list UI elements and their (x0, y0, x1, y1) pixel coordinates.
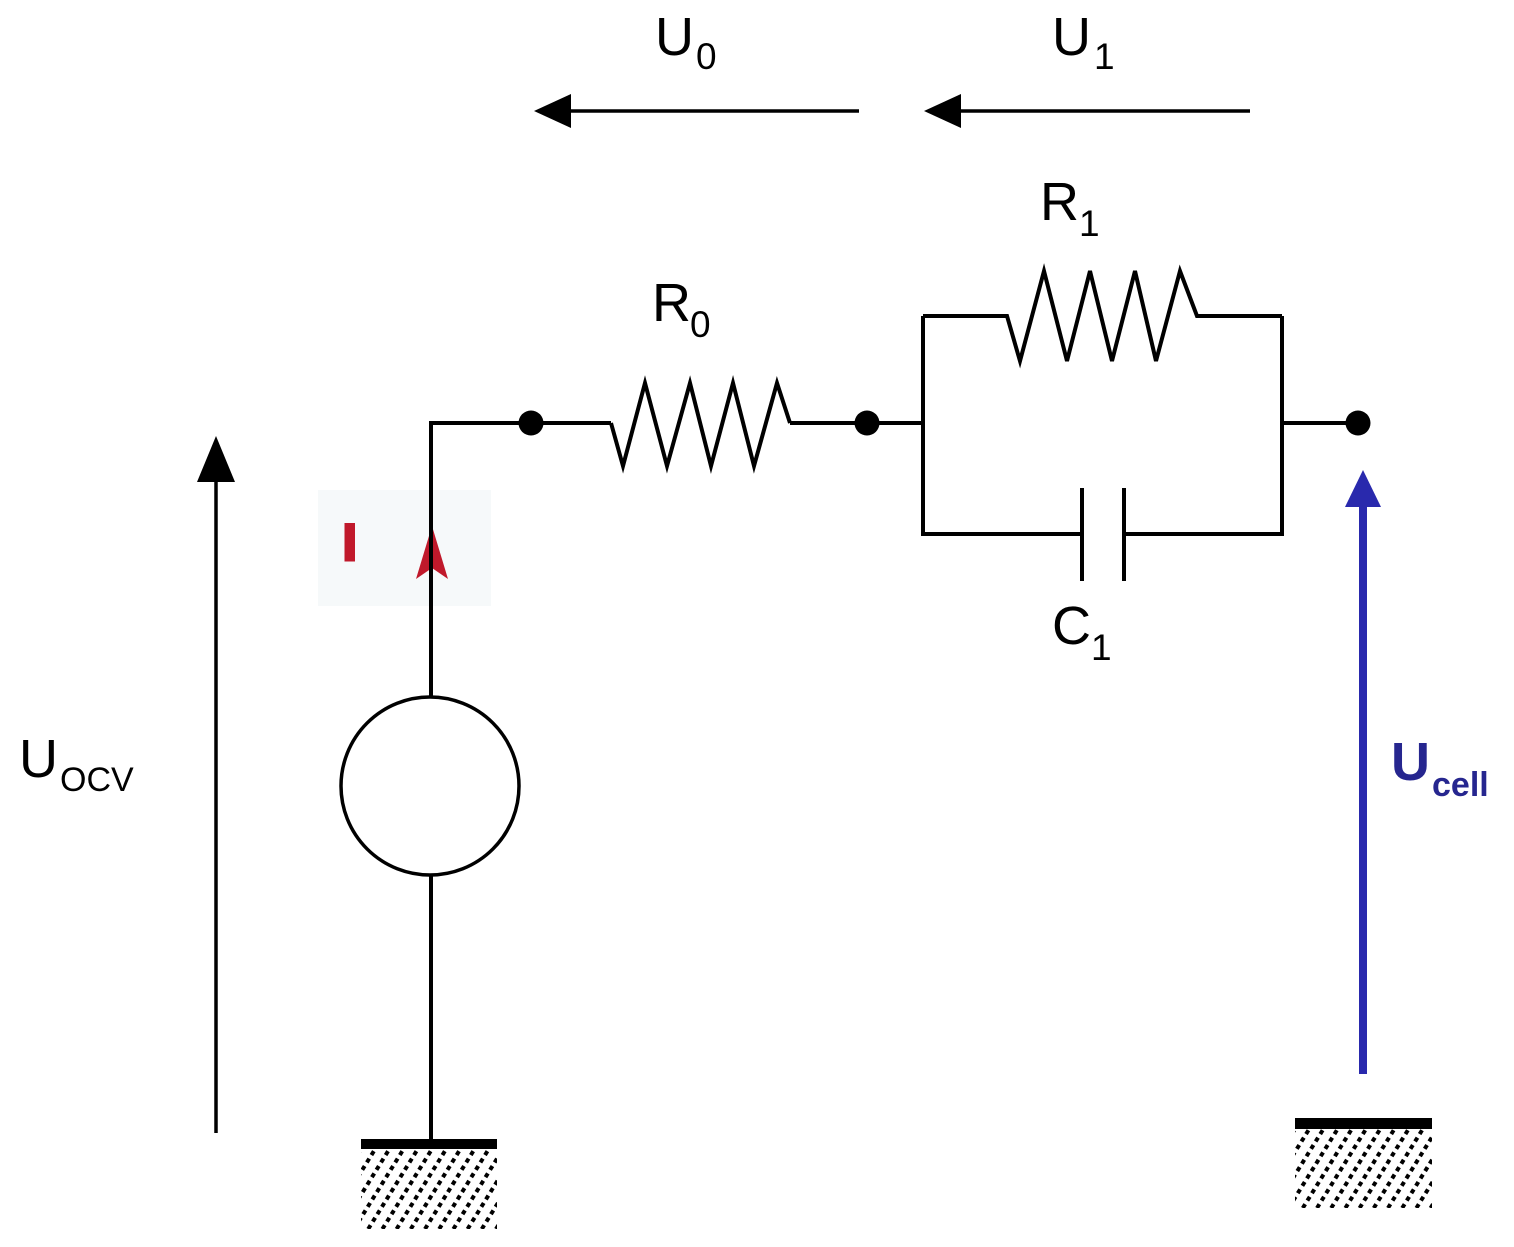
arrow U_cell (blue, right) (1359, 503, 1367, 1074)
node C (output junction dot) (1346, 411, 1371, 436)
current label I (red) (345, 523, 356, 562)
arrow U1 (top right) (956, 109, 1250, 113)
svg-text:C: C (1052, 596, 1091, 656)
svg-text:U: U (19, 729, 58, 789)
ground left: bar (361, 1139, 497, 1149)
wire: R0 to RC box (790, 421, 923, 425)
svg-text:U: U (655, 7, 694, 67)
node B (junction dot middle) (855, 411, 880, 436)
svg-text:0: 0 (696, 36, 717, 77)
svg-text:1: 1 (1094, 36, 1115, 77)
wire: source top up and right to R0 (431, 423, 611, 697)
svg-text:cell: cell (1432, 766, 1489, 804)
voltage source U_OCV circle (341, 697, 519, 875)
wire: RC box to output node (1282, 421, 1358, 425)
svg-text:OCV: OCV (60, 761, 134, 799)
svg-text:1: 1 (1079, 203, 1100, 244)
svg-text:R: R (1040, 172, 1079, 232)
arrow U_OCV (left voltage arrow) (214, 478, 218, 1133)
RC parallel box left edge (921, 316, 925, 536)
capacitor C1 bottom branch wires (923, 532, 1082, 536)
capacitor C1 plates (1080, 488, 1084, 581)
svg-text:1: 1 (1091, 627, 1112, 668)
RC parallel box right edge (1280, 316, 1284, 536)
current arrow (red chevron on wire) (416, 526, 448, 579)
wire: vertical from lower ground up to source (429, 875, 433, 1140)
svg-text:U: U (1052, 7, 1091, 67)
resistor R0 zigzag (611, 383, 790, 466)
highlight box behind current arrow (318, 490, 491, 606)
ground left: hatching (311, 1149, 545, 1229)
resistor R1 zigzag on top branch (923, 271, 1282, 361)
ground right: hatching (1246, 1129, 1480, 1208)
svg-text:U: U (1391, 732, 1430, 792)
svg-text:R: R (652, 273, 691, 333)
svg-text:0: 0 (690, 304, 711, 345)
arrow U0 (top left) (566, 109, 859, 113)
ground right: bar (1295, 1118, 1432, 1129)
node A (junction dot left) (519, 411, 544, 436)
